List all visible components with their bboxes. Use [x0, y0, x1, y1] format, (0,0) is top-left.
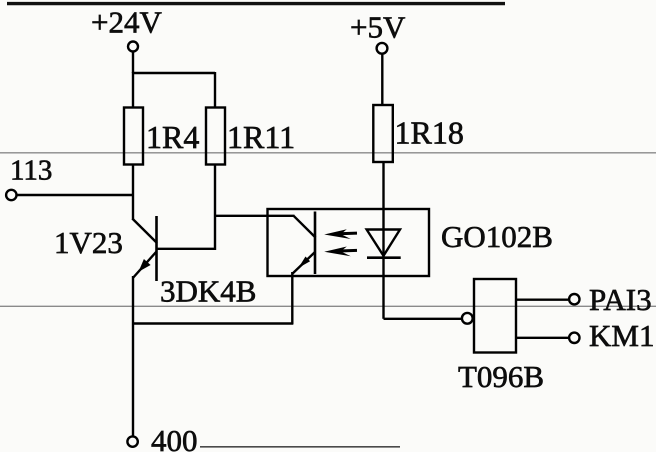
phototransistor collector lead — [294, 216, 316, 238]
terminal KM1 — [569, 333, 579, 343]
terminal 400 — [127, 436, 137, 446]
phototransistor emitter wire down — [291, 272, 293, 325]
svg-text:+5V: +5V — [350, 10, 406, 45]
ruled gray line lower — [0, 305, 656, 307]
wire top jog horizontal — [132, 72, 215, 74]
transistor 1V23 base wire — [157, 248, 217, 250]
resistor 1R11 — [206, 108, 225, 165]
wire to R11 top — [214, 72, 216, 108]
light arrow 1 — [339, 232, 357, 236]
terminal +5V — [377, 43, 388, 54]
svg-text:KM1: KM1 — [589, 318, 654, 353]
ruled gray line upper — [0, 152, 656, 154]
optocoupler GO102B box — [268, 209, 430, 276]
resistor 1R4 — [124, 108, 143, 165]
wire +24V down — [132, 52, 134, 73]
wire R4 bottom down — [132, 164, 134, 220]
pin wire PAI3 — [516, 299, 568, 301]
terminal PAI3 — [569, 294, 579, 304]
svg-text:PAI3: PAI3 — [589, 282, 652, 317]
wire base node to optocoupler — [215, 215, 295, 217]
svg-text:3DK4B: 3DK4B — [160, 274, 256, 309]
LED triangle — [367, 230, 400, 256]
transistor 1V23 collector lead — [132, 219, 157, 243]
terminal 113 — [6, 190, 16, 200]
pin wire KM1 — [516, 337, 568, 339]
svg-text:113: 113 — [10, 155, 52, 187]
svg-text:1V23: 1V23 — [54, 225, 123, 260]
wire emitter junction horizontal — [132, 322, 293, 324]
svg-text:+24V: +24V — [91, 5, 162, 40]
svg-text:GO102B: GO102B — [441, 219, 553, 254]
svg-text:400: 400 — [151, 423, 198, 452]
light arrow 2 — [339, 249, 357, 253]
wire R11 bottom down — [214, 164, 216, 250]
wire 113 to collector node — [17, 194, 134, 196]
top border line — [7, 2, 505, 5]
LED cathode bar — [367, 256, 401, 259]
phototransistor emitter arrow — [298, 257, 310, 268]
svg-text:T096B: T096B — [458, 359, 544, 394]
emitter rail to 400 — [132, 276, 134, 437]
bottom partial rule — [200, 446, 400, 448]
phototransistor emitter lead — [293, 252, 315, 274]
wire +5V down — [381, 54, 383, 106]
svg-text:1R18: 1R18 — [395, 115, 464, 151]
terminal +24V — [128, 42, 138, 52]
LED wire from 1R18 — [382, 162, 384, 258]
transistor 1V23 base bar — [155, 216, 158, 281]
T096B box — [474, 279, 516, 353]
wire LED to T096B — [384, 318, 462, 320]
transistor 1V23 emitter lead — [133, 252, 156, 278]
phototransistor bar — [314, 212, 317, 275]
resistor 1R18 — [373, 105, 393, 162]
svg-text:1R4: 1R4 — [146, 119, 199, 155]
T096B input pin circle — [462, 313, 473, 324]
transistor 1V23 emitter arrow — [139, 259, 151, 272]
LED wire down — [382, 258, 384, 319]
wire to R4 top — [132, 72, 134, 108]
svg-text:1R11: 1R11 — [227, 119, 295, 155]
